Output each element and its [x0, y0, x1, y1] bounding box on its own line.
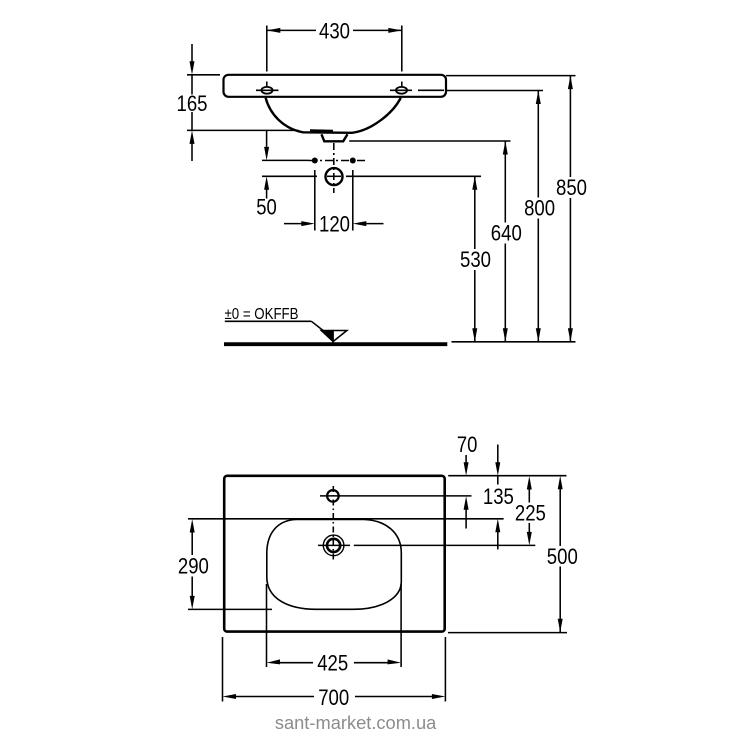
- basin bowl (plan view): [267, 520, 402, 610]
- water supply circle (front view): [326, 168, 343, 185]
- dim 225: bottom arrowhead (pointing down): [527, 532, 532, 546]
- dim 850: vertical line upper: [569, 76, 571, 177]
- extension line slab top to 850: [446, 75, 576, 77]
- dim 225: line lower: [528, 523, 530, 533]
- dim 430: arrowhead right: [388, 28, 402, 33]
- drain inner circle (plan view): [327, 539, 340, 552]
- dim 530: bottom arrowhead: [472, 328, 477, 342]
- dim 850: vertical line lower: [569, 198, 571, 342]
- mounting hole left: horizontal tick: [256, 89, 279, 91]
- datum triangle left (filled): [321, 331, 333, 342]
- dim 70: bottom arrow tail: [465, 509, 467, 529]
- dim 500: bottom arrowhead (pointing down): [558, 619, 563, 633]
- dim 165: dimension line upper segment: [191, 75, 193, 95]
- dim 800: vertical line upper: [537, 91, 539, 198]
- faucet hole (plan view): [327, 490, 339, 502]
- dim 530: vertical line upper: [474, 176, 476, 249]
- svg-text:290: 290: [178, 554, 209, 579]
- dim 800: bottom arrowhead: [536, 328, 541, 342]
- dim 50: bottom arrow tail: [266, 188, 268, 199]
- dim 165: top arrow tail: [191, 44, 193, 62]
- dim 500: top arrowhead (pointing up): [558, 476, 563, 490]
- dim 165: extension line at bowl bottom: [187, 129, 299, 131]
- overflow mark at bowl bottom: [310, 129, 333, 132]
- svg-text:430: 430: [319, 18, 350, 43]
- floor label leader diagonal: [311, 321, 324, 331]
- drain outer circle (plan view): [323, 535, 344, 556]
- washbasin slab (front view): [224, 75, 447, 97]
- extension line hole axis to 800: [446, 90, 543, 92]
- dim 430: dimension line right segment: [353, 29, 402, 31]
- horizontal centerline through supply circle: [262, 175, 317, 177]
- dim 165: tick at slab top: [187, 74, 220, 76]
- line from supply circle to 530 dimension: [346, 175, 481, 177]
- dim 700: right arrowhead (pointing right): [432, 694, 446, 699]
- svg-text:135: 135: [483, 484, 514, 509]
- centerline through fixing bolts (dash-dot): [309, 160, 366, 162]
- dim 425: extension line right: [400, 584, 402, 667]
- dim 135: bottom arrowhead (pointing up): [495, 519, 500, 533]
- dim 530: top arrowhead: [472, 176, 477, 190]
- dim 530: vertical line lower: [474, 270, 476, 342]
- svg-text:425: 425: [317, 651, 348, 676]
- svg-text:640: 640: [491, 221, 522, 246]
- mounting hole right: tick to slab edge: [418, 89, 444, 91]
- basin bowl outline (front view): [266, 98, 401, 133]
- dim 430: arrowhead left: [267, 28, 281, 33]
- mounting hole left (front view): [261, 87, 272, 94]
- floor line thin (dimension side): [452, 341, 576, 343]
- vertical centerline (front view, dashed): [333, 143, 335, 193]
- extension line plan bottom edge (500): [448, 632, 567, 634]
- dim 165: top arrowhead (outside, pointing down): [190, 61, 195, 75]
- dim 850: bottom arrowhead: [568, 328, 573, 342]
- extension line bowl top (135/290): [188, 518, 504, 520]
- drain trap (front view): [322, 134, 348, 141]
- dim 425: dimension line right segment: [354, 662, 389, 664]
- dim 430: extension line left: [266, 26, 268, 72]
- dim 700: dimension line right segment: [355, 696, 432, 698]
- dim 135: stub below top edge: [497, 476, 499, 485]
- dim 135: top arrowhead (pointing down): [495, 462, 500, 476]
- svg-text:700: 700: [318, 685, 349, 710]
- dim 425: extension line left: [266, 584, 268, 667]
- dim 700: extension line left: [222, 637, 224, 702]
- dim 165: bottom arrow tail: [191, 143, 193, 161]
- fixing bolt right (dot): [350, 158, 356, 164]
- svg-text:225: 225: [515, 501, 546, 526]
- dim 120: left arrowhead (pointing right): [301, 221, 315, 226]
- svg-text:sant-market.com.ua: sant-market.com.ua: [275, 713, 437, 733]
- svg-text:165: 165: [177, 91, 208, 116]
- svg-text:50: 50: [256, 194, 277, 219]
- dim 135: top arrow tail: [497, 445, 499, 464]
- dim 50: tick at fixing-bolt line: [262, 159, 309, 161]
- dim 120: right arrow tail: [366, 223, 384, 225]
- svg-text:70: 70: [457, 432, 478, 457]
- extension line bowl bottom (290): [188, 608, 272, 610]
- dim 500: line lower: [559, 567, 561, 633]
- dim 500: line upper: [559, 488, 561, 546]
- dim 640: bottom arrowhead: [503, 328, 508, 342]
- drain crosshair tick: [318, 544, 350, 546]
- floor line thick: [224, 342, 447, 346]
- svg-text:850: 850: [556, 175, 587, 200]
- dim 640: vertical line lower: [504, 244, 506, 342]
- dim 165: dimension line lower segment: [191, 112, 193, 130]
- dim 50: top arrow tail: [266, 130, 268, 148]
- dim 120: extension line left: [314, 170, 316, 231]
- svg-text:500: 500: [547, 544, 578, 569]
- svg-text:120: 120: [319, 212, 350, 237]
- dim 70: bottom arrowhead (pointing up): [464, 496, 469, 510]
- dim 290: line lower: [191, 577, 193, 598]
- dim 640: top arrowhead: [503, 141, 508, 155]
- vertical centerline (plan view, dash-dot): [332, 486, 334, 561]
- dim 70: top arrow tail: [465, 455, 467, 463]
- horizontal centerline dash inside circle: [327, 175, 341, 177]
- svg-text:530: 530: [460, 247, 491, 272]
- dim 430: dimension line left segment: [267, 29, 316, 31]
- dim 225: top arrowhead (pointing up): [527, 476, 532, 490]
- dim 290: line upper: [191, 532, 193, 556]
- dim 120: right arrowhead (pointing left): [353, 221, 367, 226]
- dim 70: top arrowhead (pointing down): [464, 462, 469, 476]
- datum triangle right (open): [333, 331, 347, 342]
- dim 425: dimension line left segment: [279, 662, 313, 664]
- mounting hole right (front view): [396, 87, 407, 94]
- washbasin outline (plan view): [224, 476, 445, 632]
- dim 700: left arrowhead (pointing left): [223, 694, 237, 699]
- fixing bolt left (dot): [312, 158, 318, 164]
- extension line top edge (plan): [448, 475, 566, 477]
- dim 50: top arrowhead (pointing down): [264, 147, 269, 161]
- dim 290: bottom arrowhead (pointing down): [190, 596, 195, 610]
- dim 425: left arrowhead (pointing left): [267, 659, 281, 664]
- dim 120: left arrow tail: [284, 223, 302, 225]
- dim 800: vertical line lower: [537, 219, 539, 342]
- dim 640: vertical line upper: [504, 141, 506, 223]
- dim 135: bottom arrow tail: [497, 532, 499, 550]
- dim 800: top arrowhead: [536, 91, 541, 105]
- dim 850: top arrowhead: [568, 76, 573, 90]
- dim 165: bottom arrowhead (outside, pointing up): [190, 130, 195, 144]
- dim 425: right arrowhead (pointing right): [388, 659, 402, 664]
- dim 120: extension line right: [352, 170, 354, 231]
- svg-text:800: 800: [524, 196, 555, 221]
- drain extension line to 225: [354, 544, 536, 546]
- dim 700: dimension line left segment: [235, 696, 314, 698]
- floor label underline: [225, 320, 312, 322]
- mounting hole right: horizontal tick: [390, 89, 412, 91]
- faucet hole crosshair + extension to 70/135: [320, 495, 472, 497]
- dim 50: bottom arrowhead (pointing up): [264, 176, 269, 190]
- dim 225: line upper: [528, 488, 530, 503]
- svg-text:±0 = OKFFB: ±0 = OKFFB: [225, 306, 299, 323]
- extension line drain bottom to 640: [349, 140, 510, 142]
- dim 290: top arrowhead (pointing up): [190, 519, 195, 533]
- dim 430: extension line right: [401, 26, 403, 72]
- dim 700: extension line right: [444, 637, 446, 702]
